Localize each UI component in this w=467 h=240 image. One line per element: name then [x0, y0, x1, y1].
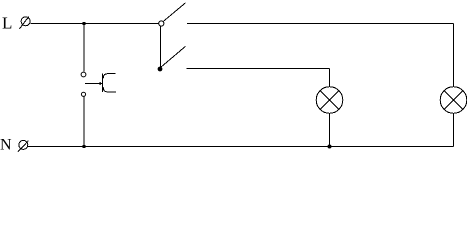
- wire: push-button to N rail: [83, 96, 85, 146]
- wire: L rail from terminal to switch pivot: [30, 23, 159, 25]
- junction dot at N rail / lamp E1: [328, 145, 332, 149]
- junction dot at L rail / push-button branch: [82, 22, 85, 25]
- push-button S1 (contact circles): [81, 72, 86, 96]
- wire: top rail from switch to lamp E2: [187, 24, 454, 87]
- switch S3 blade (lower): [161, 46, 186, 67]
- wire: lamp E1 to N rail: [329, 113, 331, 146]
- switch S2 pivot (open circle): [159, 21, 164, 26]
- wire: link between switch pivots: [160, 26, 162, 68]
- wire: lamp E2 to N rail: [453, 113, 455, 146]
- terminal N (circle with slash): [18, 140, 29, 151]
- svg-text:N: N: [0, 137, 12, 154]
- svg-text:L: L: [2, 13, 12, 32]
- push-button S1 actuator (rod, bar and spring hooks): [85, 74, 116, 93]
- lamp E1 (circle with cross): [316, 87, 343, 114]
- switch S2 blade (upper): [163, 3, 185, 22]
- terminal L (circle with slash): [19, 17, 30, 29]
- switch S3 pivot (junction dot): [158, 67, 163, 72]
- wire: N rail: [28, 146, 454, 148]
- wire: drop from L rail to push-button: [83, 24, 85, 72]
- lamp E2 (circle with cross): [440, 87, 467, 114]
- wire: lower rail from switch to lamp E1: [187, 69, 330, 87]
- junction dot at N rail / push-button branch: [82, 145, 85, 148]
